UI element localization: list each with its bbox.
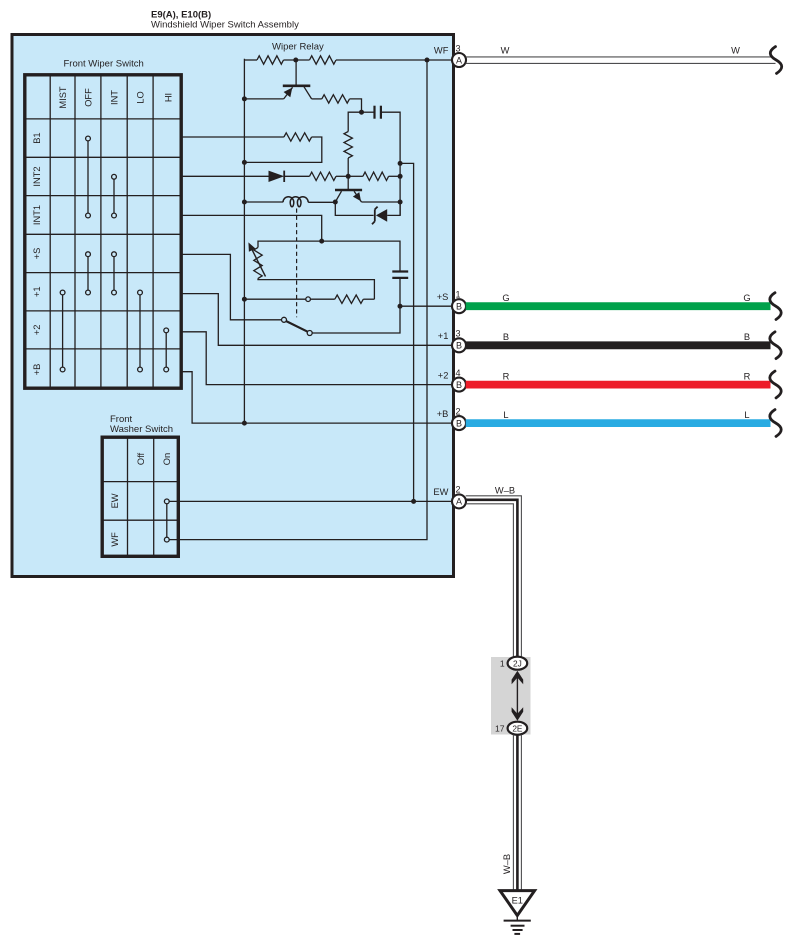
wire +S node to terminal xyxy=(400,305,453,307)
wire VR top to C2 xyxy=(258,241,400,270)
svg-text:G: G xyxy=(502,293,509,303)
resistor R2 xyxy=(310,56,337,64)
resistor R6 xyxy=(310,172,337,180)
svg-text:2: 2 xyxy=(456,406,461,416)
connector 2E pin 17 xyxy=(495,722,527,735)
svg-text:G: G xyxy=(743,293,750,303)
contact arm pivot xyxy=(282,317,287,322)
contact link OFF B1-INT1 xyxy=(86,136,91,218)
wire C1 left lead xyxy=(362,111,375,113)
resistor R8 xyxy=(335,295,364,303)
svg-text:On: On xyxy=(162,453,172,465)
junction block shading xyxy=(491,657,531,735)
node INT1 tap xyxy=(319,239,324,244)
mechanical link dashed xyxy=(296,209,298,318)
contact link INT +S-+1 xyxy=(112,252,117,295)
wire Q2 emitter to right rail xyxy=(362,201,401,203)
svg-text:B: B xyxy=(456,418,462,428)
svg-text:Washer Switch: Washer Switch xyxy=(110,424,173,435)
wire W-B to ground (white-black) xyxy=(513,735,521,890)
svg-text:EW: EW xyxy=(110,493,120,508)
svg-text:1: 1 xyxy=(456,290,461,300)
wire coil to Q2 collector xyxy=(308,201,335,203)
svg-text:2J: 2J xyxy=(513,658,522,668)
svg-text:R: R xyxy=(503,371,510,381)
wire C2 to +S node xyxy=(399,278,401,306)
resistor R4 xyxy=(322,95,350,103)
wire W-B from EW (white-black) xyxy=(466,496,522,657)
wire VR bottom to R8 right xyxy=(258,278,374,299)
svg-text:+B: +B xyxy=(32,364,42,376)
node B1 return on rail xyxy=(242,160,247,165)
svg-text:Front Wiper Switch: Front Wiper Switch xyxy=(64,59,144,70)
svg-text:A: A xyxy=(456,55,462,65)
contact link HI +2-+B xyxy=(164,328,169,372)
wire D1 to R6 xyxy=(284,175,309,177)
svg-text:EW: EW xyxy=(433,487,448,497)
contact link MIST +1-+B xyxy=(60,290,65,372)
svg-text:+2: +2 xyxy=(32,325,42,336)
resistor R1 xyxy=(257,56,284,64)
svg-text:A: A xyxy=(456,497,462,507)
break symbol W wire xyxy=(770,47,781,74)
svg-text:R: R xyxy=(744,371,751,381)
wire INT2 row to D1 xyxy=(181,175,269,177)
zener diode D2 xyxy=(372,207,387,225)
svg-text:Off: Off xyxy=(136,452,146,465)
wire R3 bottom lead xyxy=(347,158,349,176)
wire left rail xyxy=(243,59,245,423)
front wiper switch table grid xyxy=(25,75,181,388)
node R3-R6-R7 junction xyxy=(346,174,351,179)
wire R5 to rail return xyxy=(244,137,321,162)
svg-text:B: B xyxy=(456,341,462,351)
ground E1 xyxy=(500,891,535,934)
wire WF row up rail xyxy=(169,60,427,540)
wire NC contact to R8 xyxy=(311,298,335,300)
svg-text:1: 1 xyxy=(500,658,505,668)
wire R7 to right rail xyxy=(389,175,401,177)
svg-text:W: W xyxy=(501,46,510,56)
wire EW jog xyxy=(400,163,414,501)
wire R4 to C1 node xyxy=(350,99,362,112)
node R7 right xyxy=(398,174,403,179)
svg-text:W: W xyxy=(731,46,740,56)
label Front Washer Switch xyxy=(110,414,173,435)
connector terminal WF pin 3 (A) xyxy=(434,43,466,67)
inductor L1 relay coil xyxy=(283,197,308,207)
svg-text:4: 4 xyxy=(456,368,461,378)
arrow VR1 xyxy=(248,242,265,276)
break symbol +1 wire xyxy=(770,332,781,359)
svg-text:W–B: W–B xyxy=(502,854,512,874)
wire L to +B (light blue) xyxy=(466,419,771,427)
wire rail to coil xyxy=(244,201,283,203)
svg-text:E1: E1 xyxy=(512,895,523,905)
svg-text:+B: +B xyxy=(437,409,449,419)
svg-text:B: B xyxy=(456,302,462,312)
svg-text:Windshield Wiper Switch Assemb: Windshield Wiper Switch Assembly xyxy=(151,20,299,31)
contact NC point xyxy=(306,297,311,302)
svg-text:L: L xyxy=(503,410,508,420)
svg-text:3: 3 xyxy=(456,329,461,339)
svg-text:L: L xyxy=(744,410,749,420)
node EW rail join xyxy=(411,499,416,504)
wire top to R1 xyxy=(244,59,257,61)
wire R to +2 (red) xyxy=(466,381,771,389)
transistor Q2 xyxy=(335,176,362,202)
connector terminal EW pin 2 (A) xyxy=(433,485,466,509)
connector 2J pin 1 xyxy=(500,657,527,670)
wire +1 row to terminal xyxy=(181,294,453,346)
wire R1 to R2 xyxy=(284,59,310,61)
node NC wire on rail xyxy=(242,297,247,302)
node Q2 emitter right xyxy=(398,200,403,205)
wire B to +1 (black) xyxy=(466,341,771,349)
svg-text:3: 3 xyxy=(456,43,461,53)
windshield wiper switch assembly box xyxy=(12,35,454,577)
svg-text:HI: HI xyxy=(163,93,173,102)
variable resistor VR1 xyxy=(254,247,262,278)
connector terminal +B pin 2 (B) xyxy=(437,406,466,430)
wire Q1 collector to R4 xyxy=(312,98,322,100)
capacitor C1 xyxy=(375,106,381,119)
diode D1 xyxy=(269,171,285,182)
contact link INT INT2-INT1 xyxy=(112,174,117,218)
svg-text:WF: WF xyxy=(110,532,120,547)
contact link OFF +S-+1 xyxy=(86,252,91,295)
wire +B row to terminal xyxy=(181,372,453,423)
wire R8 to VR branch xyxy=(363,298,374,300)
wire R2 to WF terminal xyxy=(336,59,453,61)
svg-text:INT2: INT2 xyxy=(32,166,42,186)
wire +S row to pivot xyxy=(181,254,282,319)
wire G to +S (green) xyxy=(466,302,771,310)
svg-text:MIST: MIST xyxy=(58,86,68,109)
svg-text:Wiper Relay: Wiper Relay xyxy=(272,41,324,52)
break symbol +2 wire xyxy=(770,371,781,398)
wire R3 top lead xyxy=(348,112,361,131)
resistor R7 xyxy=(363,172,389,180)
transistor Q1 xyxy=(244,60,311,99)
resistor R5 xyxy=(284,133,312,141)
connector terminal +1 pin 3 (B) xyxy=(438,329,466,353)
svg-text:B1: B1 xyxy=(32,132,42,143)
wire B1 row to R5 xyxy=(181,136,284,138)
junction arrows xyxy=(512,671,524,721)
svg-text:INT: INT xyxy=(109,90,119,105)
node +B on rail xyxy=(242,421,247,426)
svg-text:+1: +1 xyxy=(32,286,42,297)
svg-text:17: 17 xyxy=(495,723,505,733)
washer contact link On EW-WF xyxy=(164,499,169,542)
wire zener to right rail xyxy=(387,202,400,215)
wire EW row to terminal xyxy=(169,500,452,502)
svg-text:+S: +S xyxy=(32,248,42,260)
svg-text:B: B xyxy=(744,332,750,342)
node coil left on rail xyxy=(242,200,247,205)
contact NO point xyxy=(307,331,312,336)
svg-text:B: B xyxy=(503,332,509,342)
svg-text:2: 2 xyxy=(456,485,461,495)
svg-text:WF: WF xyxy=(434,46,449,56)
node base tap R1-R2 xyxy=(293,58,298,63)
wire rail to NC contact xyxy=(244,298,305,300)
svg-text:B: B xyxy=(456,380,462,390)
svg-text:+S: +S xyxy=(437,292,449,302)
svg-text:W–B: W–B xyxy=(495,485,515,495)
wire INT1 row xyxy=(181,215,322,241)
wire W to WF (white) xyxy=(466,57,776,64)
svg-text:LO: LO xyxy=(136,91,146,103)
wire R6 to junction xyxy=(336,175,348,177)
node WF rail tap xyxy=(425,58,430,63)
node Q1 emitter on rail xyxy=(242,96,247,101)
contact link LO +1-+B xyxy=(138,290,143,372)
wire collector down to zener xyxy=(335,202,373,215)
wire C1 right to down rail xyxy=(381,112,400,215)
wire +2 row to terminal xyxy=(181,332,453,385)
capacitor C2 xyxy=(392,272,408,278)
svg-text:OFF: OFF xyxy=(83,88,93,107)
node C1 left xyxy=(359,110,364,115)
connector terminal +S pin 1 (B) xyxy=(437,290,466,314)
node EW jog xyxy=(398,161,403,166)
break symbol +B wire xyxy=(770,410,781,437)
svg-text:2E: 2E xyxy=(512,723,523,733)
node Q2 collector xyxy=(333,200,338,205)
switch movable arm xyxy=(286,321,307,332)
connector terminal +2 pin 4 (B) xyxy=(438,368,466,392)
wire NO contact to +S node xyxy=(312,306,400,333)
svg-text:INT1: INT1 xyxy=(32,205,42,225)
resistor R3 xyxy=(344,132,352,159)
break symbol +S wire xyxy=(770,293,781,320)
svg-text:+2: +2 xyxy=(438,370,449,380)
wire junction to R7 xyxy=(348,175,363,177)
svg-text:+1: +1 xyxy=(438,331,449,341)
front washer switch table grid xyxy=(102,437,178,556)
node +S junction xyxy=(398,304,403,309)
